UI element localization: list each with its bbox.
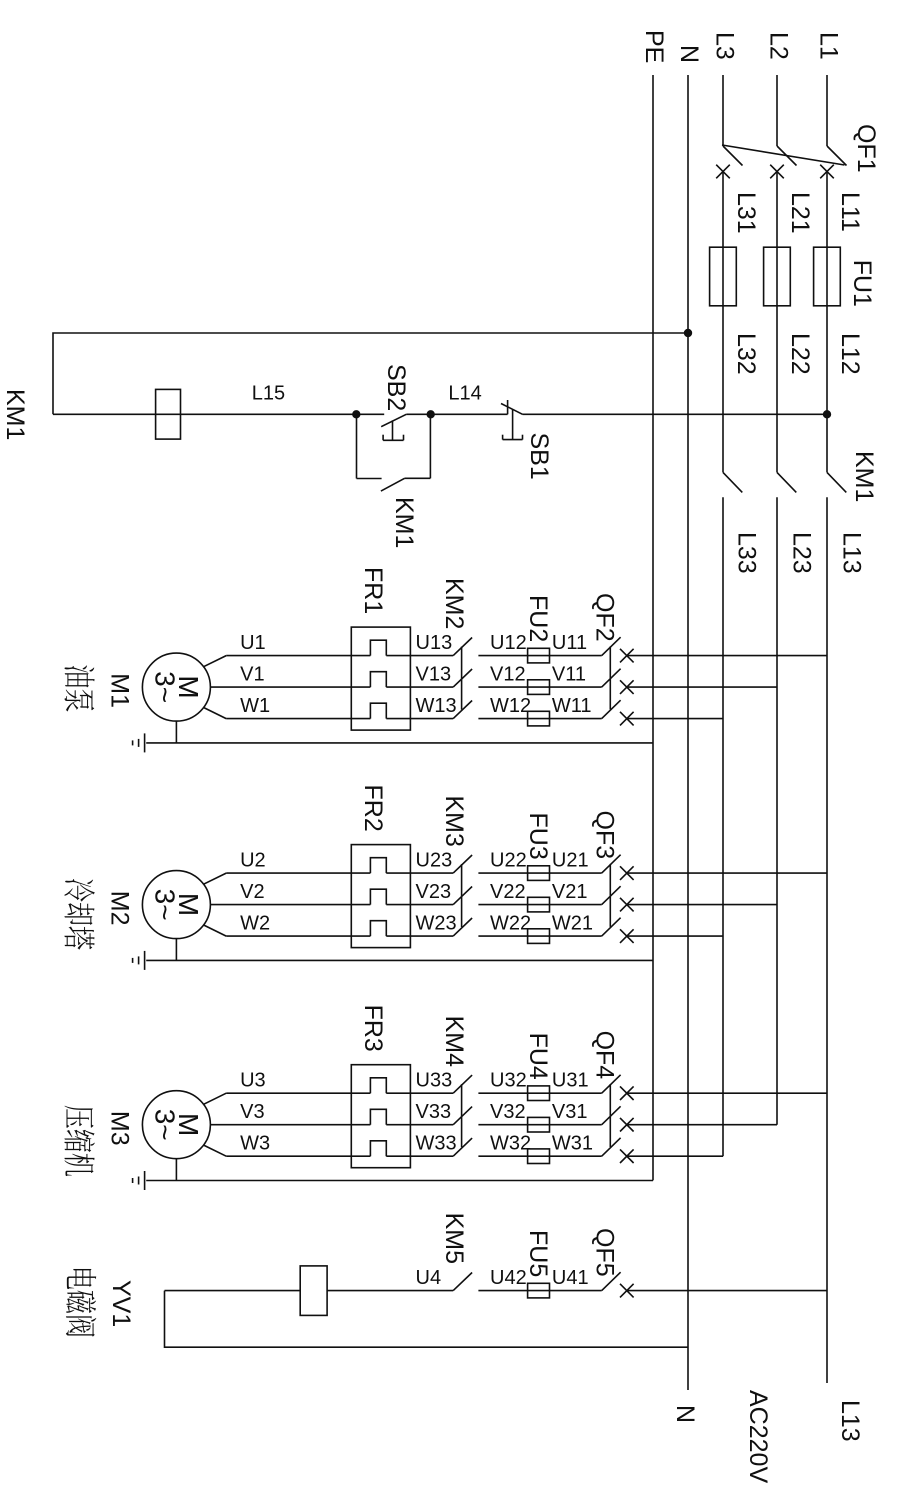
wire V to motor [210,686,370,688]
wire L2 incoming [776,75,778,146]
svg-text:U32: U32 [490,1070,527,1092]
svg-text:U41: U41 [552,1267,589,1289]
svg-text:M1: M1 [105,673,133,708]
pushbutton SB2 (NO start) [406,413,430,415]
svg-text:V33: V33 [416,1101,452,1123]
wire PE drop [146,742,653,744]
svg-text:PE: PE [640,30,668,63]
ground symbol [144,1171,146,1190]
svg-text:3~: 3~ [150,671,181,703]
wire return to N [165,1291,689,1348]
svg-text:KM1: KM1 [390,497,418,548]
wire U drop from rail [627,655,827,657]
wire W into overload [386,718,453,720]
linkage QF4 [609,1084,611,1147]
wire U drop from rail [627,872,827,874]
fuse FU3 U [528,866,550,881]
wire motor frame to PE [175,1159,177,1181]
linkage QF2 [609,646,611,709]
breaker contact cross QF2 U [620,649,634,663]
breaker blade QF2 W [602,700,621,718]
svg-text:V32: V32 [490,1101,526,1123]
svg-text:L15: L15 [252,382,285,404]
svg-text:U3: U3 [240,1070,266,1092]
svg-text:KM5: KM5 [440,1213,468,1264]
wire U into overload [386,1092,453,1094]
junction control tap on L12 [824,411,831,418]
svg-text:FU3: FU3 [524,813,552,860]
motor M1 [142,653,210,721]
breaker contact cross QF3 W [620,929,634,943]
svg-text:SB1: SB1 [525,433,553,480]
breaker contact cross QF2 V [620,680,634,694]
svg-text:L12: L12 [836,333,864,375]
breaker blade QF4 W [602,1138,621,1156]
svg-text:3~: 3~ [150,889,181,921]
wire V into overload [386,904,453,906]
wire L14 segment [431,413,508,415]
wire PE rail [652,75,654,1180]
svg-text:V21: V21 [552,881,588,903]
svg-text:L13: L13 [836,1400,864,1442]
wire N rail [687,75,689,1390]
overload heater FR1 U [370,640,386,655]
wire U to motor [226,872,370,874]
svg-text:L31: L31 [732,192,760,234]
contactor blade KM3 W [453,918,472,936]
contactor blade KM2 U [453,638,472,656]
svg-text:L2: L2 [765,32,793,60]
breaker blade QF3 U [602,855,621,873]
svg-text:U1: U1 [240,632,266,654]
svg-text:L22: L22 [786,333,814,375]
breaker contact cross QF5 [620,1284,634,1298]
svg-text:FU5: FU5 [524,1230,552,1277]
breaker blade QF4 U [602,1075,621,1093]
breaker contact cross QF3 U [620,866,634,880]
fuse FU1 pole L1 [814,247,841,306]
overload heater FR1 V [370,672,386,687]
svg-text:W21: W21 [552,913,593,935]
wire L11-L12 [826,172,828,473]
label 压缩机 [64,1106,93,1128]
wire motor frame to PE [175,939,177,961]
svg-text:QF3: QF3 [590,811,618,860]
contactor blade KM4 W [453,1138,472,1156]
contactor blade KM5 [453,1273,472,1291]
wire control rung upper [523,413,828,415]
svg-text:W3: W3 [240,1133,270,1155]
svg-text:KM1: KM1 [1,389,29,440]
svg-text:N: N [675,45,703,63]
svg-text:U4: U4 [416,1267,442,1289]
svg-text:QF2: QF2 [590,593,618,642]
svg-text:V3: V3 [240,1101,264,1123]
overload heater FR2 U [370,858,386,873]
svg-text:U31: U31 [552,1070,589,1092]
wire from L13 [627,1290,827,1292]
svg-text:FR1: FR1 [359,567,387,614]
svg-text:3~: 3~ [150,1109,181,1141]
pushbutton SB1 (NC stop) [501,404,523,415]
wire W into overload [386,1155,453,1157]
wire W to motor [226,718,370,720]
breaker contact cross QF3 V [620,898,634,912]
ground symbol [144,951,146,970]
svg-text:YV1: YV1 [107,1280,135,1327]
breaker blade QF3 V [602,886,621,904]
svg-text:L23: L23 [788,532,816,574]
svg-text:U23: U23 [416,850,453,872]
fuse FU4 V [528,1117,550,1132]
overload relay FR1 box [351,627,410,730]
wire W into overload [386,935,453,937]
overload relay FR3 box [351,1065,410,1168]
wire W through fuse [478,935,601,937]
svg-text:KM1: KM1 [850,451,878,502]
wire V to motor [210,904,370,906]
wire L31-L32 [722,172,724,473]
svg-text:V12: V12 [490,664,526,686]
wire U through fuse [478,655,601,657]
svg-text:U22: U22 [490,850,527,872]
svg-text:U12: U12 [490,632,527,654]
svg-text:L21: L21 [786,192,814,234]
wire U41-U42 [478,1290,601,1292]
svg-text:U21: U21 [552,850,589,872]
svg-text:AC220V: AC220V [744,1390,772,1483]
wire U to motor [226,1092,370,1094]
svg-text:L13: L13 [837,532,865,574]
svg-text:L32: L32 [732,333,760,375]
svg-text:QF4: QF4 [590,1031,618,1080]
overload heater FR3 V [370,1109,386,1124]
linkage KM4 [461,1084,463,1147]
wire W drop from rail [627,935,723,937]
svg-text:L11: L11 [836,192,864,232]
wire PE drop [146,959,653,961]
svg-text:W33: W33 [416,1133,457,1155]
wire L33 rail [722,497,724,1156]
svg-text:W32: W32 [490,1133,531,1155]
wire L13 rail [826,497,828,1383]
breaker blade QF5 [602,1272,621,1290]
svg-text:U13: U13 [416,632,453,654]
svg-text:W23: W23 [416,913,457,935]
breaker contact cross QF4 U [620,1086,634,1100]
junction SB2 top [427,411,434,418]
wire coil return to N [53,333,688,414]
wire W to motor [226,935,370,937]
svg-text:W11: W11 [552,695,592,717]
wire U drop from rail [627,1092,827,1094]
junction SB2 bottom [353,411,360,418]
contactor blade KM4 V [453,1107,472,1125]
svg-text:M3: M3 [105,1111,133,1146]
wire V into overload [386,1124,453,1126]
svg-text:FU4: FU4 [524,1033,552,1080]
overload heater FR2 V [370,889,386,904]
wire V drop from rail [627,1124,777,1126]
wire V through fuse [478,686,601,688]
fuse FU5 [528,1283,550,1298]
svg-text:FU2: FU2 [524,595,552,642]
label solenoid valve [67,1269,96,1289]
contactor KM1 main contacts [827,472,846,492]
fuse FU2 V [528,680,550,695]
fuse FU2 U [528,648,550,663]
wire W drop from rail [627,718,723,720]
svg-text:FR2: FR2 [359,785,387,832]
linkage QF3 [609,864,611,927]
label 冷却塔 [64,879,94,901]
breaker blade QF4 V [602,1106,621,1124]
motor M3 [142,1091,210,1159]
svg-text:U2: U2 [240,850,266,872]
breaker blade QF2 U [602,637,621,655]
svg-text:W1: W1 [240,695,270,717]
svg-text:V31: V31 [552,1101,588,1123]
junction on N rail [685,330,692,337]
wire U through fuse [478,1092,601,1094]
overload heater FR3 U [370,1078,386,1093]
linkage KM2 [461,647,463,710]
svg-text:L1: L1 [815,32,843,60]
svg-text:SB2: SB2 [382,364,410,411]
svg-text:L33: L33 [733,532,761,574]
svg-text:FR3: FR3 [359,1005,387,1052]
svg-text:V22: V22 [490,881,526,903]
overload heater FR2 W [370,921,386,936]
breaker contact cross QF4 W [620,1149,634,1163]
svg-text:U11: U11 [552,632,587,654]
svg-text:W22: W22 [490,913,531,935]
wire U4 [327,1290,453,1292]
fuse FU1 pole L3 [710,247,737,306]
svg-text:V11: V11 [552,664,586,686]
svg-text:M2: M2 [105,891,133,926]
svg-text:W2: W2 [240,913,270,935]
svg-text:V2: V2 [240,881,264,903]
svg-text:L3: L3 [711,32,739,60]
wire U into overload [386,872,453,874]
motor M2 [142,871,210,939]
linkage KM3 [461,864,463,927]
ground symbol [144,733,146,752]
wire W to motor [226,1155,370,1157]
fuse FU4 U [528,1086,550,1101]
label 油泵 [65,665,95,687]
fuse FU2 W [528,711,550,726]
wire W drop from rail [627,1155,723,1157]
wire L15 segment [53,413,356,415]
overload heater FR1 W [370,703,386,718]
svg-text:W12: W12 [490,695,531,717]
wire V through fuse [478,1124,601,1126]
overload relay FR2 box [351,845,410,948]
wire U into overload [386,655,453,657]
wire L23 rail [776,497,778,1124]
fuse FU3 V [528,897,550,912]
svg-text:U42: U42 [490,1267,527,1289]
wire L3 incoming [722,75,724,146]
svg-text:QF5: QF5 [590,1228,618,1277]
svg-text:V1: V1 [240,664,264,686]
coil KM1 [156,389,181,439]
svg-text:V23: V23 [416,881,452,903]
svg-text:L14: L14 [448,382,481,404]
wire L21-L22 [776,172,778,473]
breaker contact cross QF2 W [620,712,634,726]
wire L1 incoming [826,75,828,146]
breaker blade QF3 W [602,918,621,936]
contactor blade KM4 U [453,1075,472,1093]
breaker blade QF2 V [602,669,621,687]
svg-text:V13: V13 [416,664,452,686]
fuse FU1 pole L2 [764,247,791,306]
wire YV1 return [165,1290,301,1292]
svg-text:FU1: FU1 [848,260,876,307]
svg-text:N: N [671,1405,699,1423]
wire V drop from rail [627,686,777,688]
wire V to motor [210,1124,370,1126]
svg-text:QF1: QF1 [852,124,880,173]
fuse FU3 W [528,929,550,944]
svg-text:W31: W31 [552,1133,593,1155]
svg-text:W13: W13 [416,695,457,717]
contactor blade KM3 U [453,855,472,873]
wire U to motor [226,655,370,657]
svg-text:KM3: KM3 [440,796,468,847]
wire W through fuse [478,718,601,720]
svg-text:KM4: KM4 [440,1016,468,1068]
svg-text:U33: U33 [416,1070,453,1092]
coil YV1 [300,1266,327,1316]
wire V through fuse [478,904,601,906]
svg-text:KM2: KM2 [440,578,468,629]
wire V drop from rail [627,904,777,906]
contactor KM1 auxiliary contact [429,414,431,478]
wire motor frame to PE [175,721,177,743]
wire W through fuse [478,1155,601,1157]
contactor blade KM2 W [453,701,472,719]
wire V into overload [386,686,453,688]
overload heater FR3 W [370,1141,386,1156]
contactor blade KM3 V [453,887,472,905]
breaker contact cross QF4 V [620,1118,634,1132]
contactor blade KM2 V [453,669,472,687]
fuse FU4 W [528,1149,550,1164]
wire U through fuse [478,872,601,874]
circuit breaker QF1 [827,146,847,166]
wire PE drop [146,1180,653,1182]
